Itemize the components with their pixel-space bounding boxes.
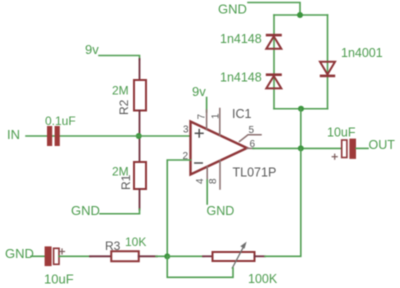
svg-text:9v: 9v	[85, 42, 99, 57]
svg-text:8: 8	[208, 178, 219, 184]
capacitor C1 0.1uF	[47, 126, 60, 146]
pin 8 stub	[219, 160, 221, 189]
wire pin 4 to GND	[206, 180, 208, 204]
svg-text:GND: GND	[71, 203, 100, 218]
pin R2 bottom / R1 top	[139, 111, 141, 163]
wire C3 to OUT	[356, 147, 368, 149]
svg-text:100K: 100K	[248, 272, 278, 286]
svg-text:1n4001: 1n4001	[341, 46, 383, 60]
wire GND to C2	[31, 255, 45, 257]
pin R1 bottom	[139, 189, 141, 210]
svg-text:2M: 2M	[112, 84, 129, 98]
svg-text:GND: GND	[207, 204, 235, 218]
wire 9v to pin 7	[206, 98, 208, 113]
pin 7 stub	[206, 110, 208, 130]
op-amp IC1 triangle	[191, 122, 248, 175]
svg-text:TL071P: TL071P	[233, 166, 277, 180]
svg-text:3: 3	[183, 125, 189, 136]
junction bottom rail	[298, 106, 304, 112]
resistor R2	[134, 80, 146, 111]
pin R3 right	[139, 255, 157, 257]
op-amp minus input mark	[195, 162, 202, 164]
svg-text:R2: R2	[117, 99, 131, 115]
wire GND to diode network top	[248, 3, 300, 16]
svg-text:9v: 9v	[192, 84, 206, 99]
svg-text:7: 7	[197, 114, 208, 120]
op-amp plus input mark	[195, 130, 203, 137]
pin 4 stub	[206, 167, 208, 183]
wire 9v to R2 top	[99, 56, 140, 60]
wire clamp node down to output node	[300, 109, 302, 149]
diode D2 1n4148	[266, 73, 282, 88]
junction output node	[298, 145, 304, 151]
potentiometer wiper arrow	[232, 242, 246, 268]
wire left diode branch	[273, 15, 275, 109]
pin R3 left	[90, 255, 111, 257]
wire right diode branch	[327, 15, 329, 109]
capacitor C2 10uF polarized	[45, 246, 59, 266]
svg-text:1n4148: 1n4148	[220, 71, 262, 85]
svg-text:1: 1	[211, 113, 222, 119]
pin 1 stub	[219, 109, 221, 136]
resistor R3	[111, 251, 139, 261]
svg-text:GND: GND	[218, 2, 247, 17]
C2 plus mark	[60, 249, 65, 254]
resistor R1	[134, 162, 146, 189]
potentiometer R4 body 100K	[213, 252, 255, 261]
svg-text:R1: R1	[119, 174, 133, 190]
svg-text:1n4148: 1n4148	[220, 32, 262, 46]
wire junction to pot left	[167, 255, 204, 257]
pin 5 stub	[240, 135, 262, 142]
pin pot left	[203, 255, 213, 257]
wire R3 to junction	[156, 255, 167, 257]
wire pin 2 feedback riser	[167, 160, 190, 256]
wire wiper bypass	[167, 256, 233, 277]
junction input node	[136, 133, 142, 139]
junction feedback node	[164, 253, 170, 259]
svg-text:IN: IN	[7, 127, 20, 142]
svg-text:4: 4	[195, 178, 206, 184]
svg-text:5: 5	[249, 125, 255, 136]
svg-text:10K: 10K	[125, 235, 146, 249]
wire diode network bottom rail	[274, 108, 328, 110]
svg-text:10uF: 10uF	[44, 272, 74, 287]
pin R2 top	[139, 59, 141, 80]
svg-text:10uF: 10uF	[327, 126, 356, 140]
pin 6 output stub	[247, 147, 254, 149]
diode D3 1n4001	[320, 62, 335, 77]
wire C2 to R3	[59, 255, 91, 257]
junction top rail	[297, 12, 303, 18]
wire diode network top rail	[274, 14, 328, 16]
svg-text:IC1: IC1	[232, 107, 252, 121]
svg-text:GND: GND	[5, 246, 34, 261]
capacitor C3 10uF output	[342, 139, 356, 159]
diode D1 1n4148	[266, 34, 282, 49]
wire pot right to output node	[265, 148, 301, 256]
wire output net	[253, 147, 342, 149]
svg-text:R3: R3	[105, 239, 121, 253]
svg-text:OUT: OUT	[369, 138, 396, 152]
svg-text:0.1uF: 0.1uF	[45, 114, 76, 128]
C3 plus mark	[332, 154, 337, 159]
pin pot right	[255, 255, 266, 257]
wire IN net to op-amp pin 3	[26, 135, 191, 137]
wire R1 bottom to GND	[100, 209, 140, 214]
